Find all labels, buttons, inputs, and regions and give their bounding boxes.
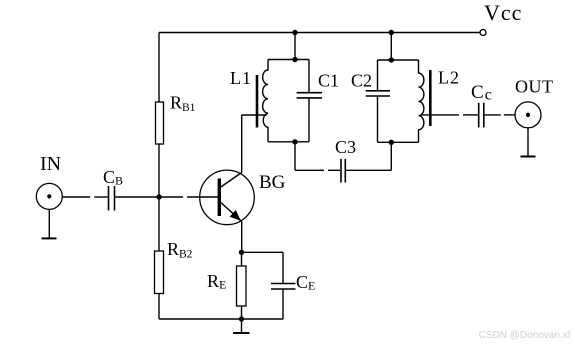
svg-text:RE: RE: [207, 271, 226, 292]
wire Vcc rail: [159, 32, 480, 34]
node tank2 top: [389, 57, 394, 62]
resistor RE: [207, 266, 246, 306]
capacitor CB: [103, 167, 123, 211]
wire emitter node to CE branch: [242, 251, 284, 253]
node tank2 bottom: [389, 140, 394, 145]
inductor L1 coil: [263, 60, 268, 142]
wire IN to CB: [62, 196, 108, 198]
node emitter junction: [239, 250, 244, 255]
svg-text:Vcc: Vcc: [484, 0, 522, 25]
wire rail to tank1 top: [294, 33, 296, 60]
node ground junction: [239, 316, 244, 321]
capacitor C2: [366, 60, 390, 142]
svg-text:C1: C1: [318, 71, 339, 91]
svg-text:BG: BG: [259, 172, 286, 193]
ground: [233, 319, 250, 333]
svg-text:CSDN @Donovan.xf: CSDN @Donovan.xf: [479, 330, 571, 341]
node tank1 top: [292, 57, 297, 62]
capacitor Cc: [471, 82, 493, 127]
wire rail to tank2 top: [390, 33, 392, 61]
wire collector vertical to L1 tap: [242, 115, 267, 173]
resistor RB1: [156, 93, 196, 145]
wire L2 tap to Cc: [421, 114, 478, 116]
wire left drop from rail to RB1: [158, 33, 160, 103]
wire collector up: [241, 222, 243, 253]
ground at IN: [42, 209, 57, 238]
wire bottom rail: [159, 318, 283, 320]
terminal IN: [36, 183, 62, 209]
svg-text:C2: C2: [351, 71, 372, 91]
svg-text:RB1: RB1: [170, 93, 196, 115]
node base junction: [156, 194, 161, 199]
capacitor C3: [335, 137, 356, 183]
svg-text:C3: C3: [335, 137, 356, 157]
inductor L2 coil: [419, 60, 424, 142]
svg-text:IN: IN: [40, 153, 61, 175]
capacitor C1: [297, 60, 322, 142]
wire base node to RB2: [158, 197, 160, 251]
wire Cc to OUT: [485, 114, 516, 116]
node tank1 bottom: [292, 139, 297, 144]
svg-text:CE: CE: [296, 272, 315, 293]
node rail tank1: [292, 30, 297, 35]
inductor L2 bar: [429, 70, 432, 126]
power terminal Vcc: [480, 30, 486, 36]
svg-text:Cc: Cc: [471, 82, 493, 104]
svg-text:CB: CB: [103, 167, 123, 188]
tank2 frame bottom edge: [378, 141, 419, 143]
transistor BG: [200, 170, 255, 225]
resistor RB2: [155, 239, 193, 294]
tank1 frame top edge: [268, 59, 309, 61]
node rail tank2: [389, 30, 394, 35]
svg-text:OUT: OUT: [515, 77, 554, 97]
wire C3 to tank2 bottom: [346, 142, 391, 170]
wire CB to base: [115, 196, 218, 198]
wire RB1 to base node: [158, 144, 160, 197]
svg-text:L2: L2: [438, 68, 460, 88]
terminal OUT: [515, 102, 541, 128]
wire RE to ground rail: [241, 306, 243, 319]
svg-text:L1: L1: [230, 68, 252, 88]
inductor L1 bar: [256, 75, 259, 128]
svg-text:RB2: RB2: [167, 239, 193, 261]
wire RB2 to bottom rail: [158, 294, 160, 320]
wire emitter node to RE: [241, 252, 243, 266]
capacitor CE: [271, 252, 315, 319]
ground at OUT: [521, 128, 536, 157]
tank2 frame top edge: [378, 59, 419, 61]
tank1 frame bottom edge: [268, 141, 309, 143]
wire tank1 bottom to C3: [295, 142, 340, 171]
